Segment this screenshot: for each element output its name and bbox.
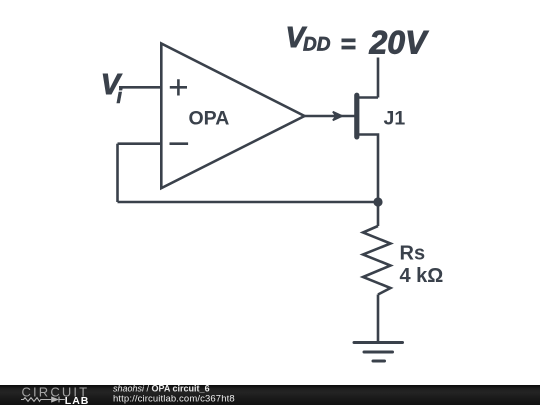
wire op-amp output to gate — [305, 115, 355, 118]
svg-text:OPA: OPA — [189, 108, 230, 130]
wire resistor to ground — [377, 295, 380, 343]
svg-text:LAB: LAB — [65, 395, 90, 405]
svg-text:Rs: Rs — [400, 243, 426, 265]
svg-text:J1: J1 — [384, 108, 406, 130]
logo resistor zigzag and diode — [21, 397, 65, 403]
wire Vi to + input — [119, 86, 161, 89]
transistor J1 drain lead — [357, 96, 378, 99]
svg-text:4 kΩ: 4 kΩ — [400, 265, 444, 287]
wire VDD supply — [377, 58, 380, 98]
svg-text:20V: 20V — [369, 25, 430, 61]
ground symbol — [354, 341, 403, 344]
wire feedback vertical — [116, 144, 119, 202]
svg-text:http://circuitlab.com/c367ht8: http://circuitlab.com/c367ht8 — [113, 393, 235, 404]
wire node to resistor — [377, 202, 380, 226]
gate arrowhead — [333, 112, 342, 121]
resistor Rs zigzag — [363, 226, 391, 295]
transistor J1 channel bar — [354, 95, 359, 137]
svg-text:shaohsi / OPA circuit_6: shaohsi / OPA circuit_6 — [113, 384, 210, 394]
node junction dot — [373, 197, 382, 206]
svg-text:DD: DD — [303, 34, 331, 55]
op-amp U1 body — [161, 44, 304, 189]
svg-text:i: i — [117, 86, 123, 108]
transistor J1 source lead — [357, 135, 378, 203]
wire feedback horizontal to node — [118, 201, 379, 204]
op-amp plus input marker — [170, 79, 187, 95]
op-amp minus input marker — [170, 142, 189, 145]
wire feedback minus input — [118, 142, 162, 145]
